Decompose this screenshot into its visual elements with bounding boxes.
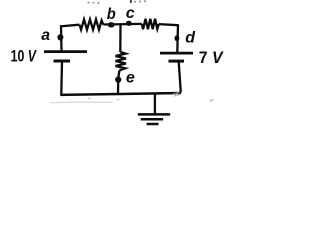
ground bar 3 (147, 123, 159, 126)
scan noise dots top left of b (87, 1, 89, 3)
scan bleed-through line below bottom rail (50, 101, 113, 103)
scan noise squiggle near ground (174, 93, 180, 97)
wire bottom rail (60, 93, 181, 95)
resistor R1 (80, 19, 104, 29)
scan noise speck right of ground stem (210, 100, 214, 103)
ground bar 2 (141, 118, 163, 121)
scan noise dots top right of c (134, 1, 136, 3)
wire middle branch lower (118, 71, 119, 95)
resistor R3 (116, 52, 127, 71)
svg-text:c: c (126, 5, 135, 22)
svg-text:10 V: 10 V (11, 46, 38, 65)
svg-text:7 V: 7 V (199, 48, 224, 67)
ground bar 1 (138, 113, 170, 116)
wire top-left segment (60, 25, 80, 27)
wire middle branch upper (119, 24, 121, 52)
resistor R2 (142, 19, 159, 30)
battery B2 long plate (7 V) (160, 52, 193, 55)
node e (115, 76, 121, 82)
svg-text:b: b (107, 6, 116, 23)
wire right vertical to battery (176, 24, 179, 52)
wire R2 to top-right corner (159, 24, 178, 25)
node a (57, 34, 63, 40)
battery B1 short plate (54, 60, 71, 63)
battery B1 long plate (10 V) (44, 50, 87, 53)
svg-text:a: a (41, 27, 50, 44)
node c (126, 21, 132, 26)
node b (108, 22, 115, 27)
ground stem (154, 94, 156, 114)
wire left vertical from top corner to battery (60, 25, 63, 51)
scan noise tick above c (130, 0, 132, 3)
wire below battery B2 (179, 62, 181, 93)
scan noise speck below mid junction (117, 98, 120, 101)
wire between R1 and R2 (103, 23, 142, 26)
svg-text:d: d (185, 29, 196, 46)
battery B2 short plate (169, 60, 185, 63)
node d (175, 35, 180, 41)
wire below battery B1 (60, 62, 63, 95)
svg-text:e: e (126, 70, 135, 87)
scan noise speck near bottom rail (88, 97, 91, 100)
